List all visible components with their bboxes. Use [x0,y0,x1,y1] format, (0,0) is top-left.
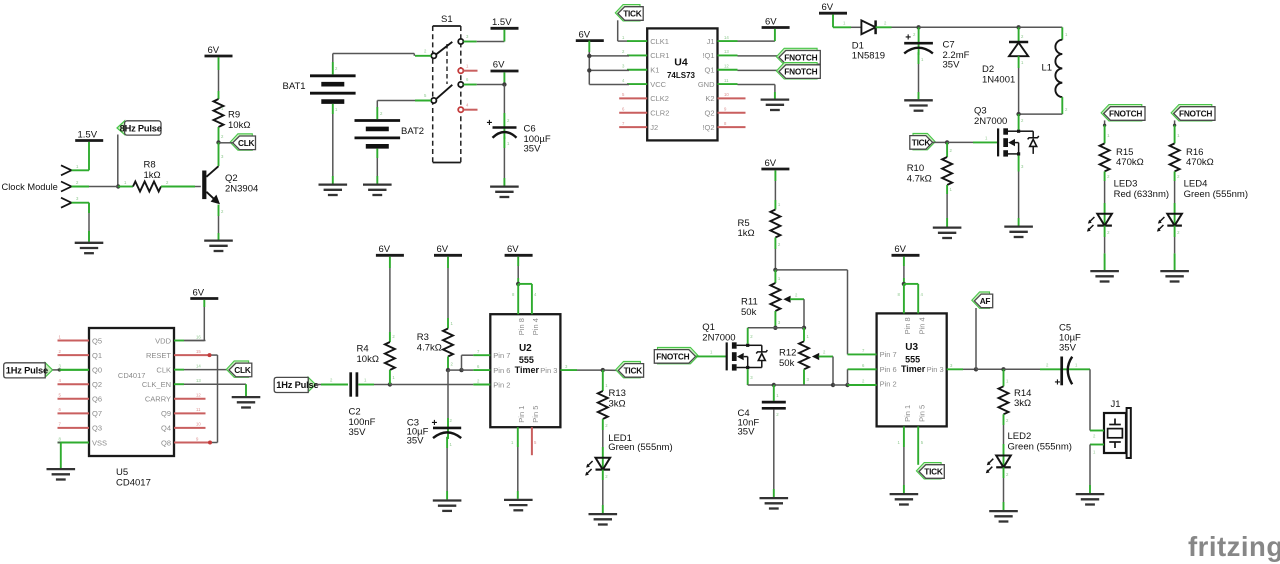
svg-text:J1: J1 [1111,399,1121,410]
svg-text:CARRY: CARRY [145,395,171,404]
svg-text:Pin 6: Pin 6 [880,365,897,374]
svg-text:74LS73: 74LS73 [667,71,696,80]
svg-text:R8: R8 [144,159,156,170]
svg-text:Green (555nm): Green (555nm) [1008,441,1072,452]
svg-text:6V: 6V [437,244,449,255]
wire 6V to U2 Pin8/Pin4 [517,257,519,266]
net flag FNOTCH (R15) [1101,105,1142,121]
svg-text:CLK2: CLK2 [650,94,669,103]
svg-text:VDD: VDD [155,336,171,345]
wire LED3 to ground [1104,226,1106,237]
svg-text:R14: R14 [1014,388,1031,399]
svg-text:FNOTCH: FNOTCH [656,352,689,362]
svg-text:Q3: Q3 [974,106,987,117]
svg-text:12: 12 [724,64,729,69]
ground (U2 Pin1) [504,499,533,501]
svg-text:4.7kΩ: 4.7kΩ [907,173,932,184]
wire 1Hz Pulse to C2 [316,384,321,386]
IC U2 555 timer [490,314,560,427]
S1 pole1 lever [436,42,453,55]
S1 pin 2 (common 1) [431,53,436,58]
svg-text:CLK: CLK [238,138,255,148]
svg-text:Pin 5: Pin 5 [531,406,540,423]
svg-text:Q1: Q1 [92,351,102,360]
net flag FNOTCH (U4 Q1) [738,69,780,71]
power rail 6V (U2) [505,254,533,257]
wire C3 to ground [446,437,448,448]
U4 pin 6 CLR2 [619,112,647,114]
svg-text:fritzing: fritzing [1188,531,1280,562]
svg-text:AF: AF [980,296,991,306]
svg-text:TICK: TICK [924,467,943,477]
wire U5 VDD to 6V [184,340,204,342]
node junction TICK/R10/Q3 [945,140,949,144]
svg-text:CD4017: CD4017 [118,371,146,380]
svg-text:TICK: TICK [623,9,642,19]
IC U5 CD4017 [89,328,174,456]
svg-text:2N3904: 2N3904 [225,184,258,195]
svg-text:CLK1: CLK1 [650,37,669,46]
wire C4 to ground [773,410,775,489]
svg-text:6V: 6V [193,287,205,298]
power rail 6V (U4 J1) [762,26,790,29]
svg-text:C2: C2 [349,407,361,418]
U3 Pin6 stub [848,368,877,370]
U5 pin 7 Q3 [58,427,90,429]
node junction U4 CLR1 [587,54,591,58]
U5 pin 16 VDD [174,340,184,342]
S1 pole2 lever [436,85,453,100]
wire TICK to R10 node [933,141,948,143]
svg-text:6V: 6V [579,29,591,40]
wire U4 J1 to 6V [738,40,775,42]
svg-text:Pin 4: Pin 4 [531,318,540,335]
svg-text:CLK: CLK [234,365,251,375]
ground (U5 CLK_EN) [232,396,261,398]
U2 Pin3 stub [560,369,577,371]
svg-text:35V: 35V [349,427,367,438]
svg-text:Red (633nm): Red (633nm) [1114,189,1169,200]
net flag FNOTCH (R16) [1171,105,1212,121]
svg-text:Pin 2: Pin 2 [880,380,897,389]
ground (C6) [490,185,519,187]
ground (U3 Pin1) [890,493,919,495]
ground (C7) [904,99,933,101]
svg-text:Pin 8: Pin 8 [903,317,912,334]
wire 6V to U3 Pin8/Pin4 [903,257,905,266]
node junction U4 K1 [587,68,591,72]
wire S1 pin3 to 1.5V [477,41,505,43]
svg-text:LED2: LED2 [1008,431,1032,442]
R11 wiper arrow [783,296,790,303]
wire node to U3 Pin7 [775,269,847,271]
svg-text:1Hz Pulse: 1Hz Pulse [276,380,318,390]
svg-text:16: 16 [196,334,201,339]
S1 pin 6 [458,82,463,87]
svg-text:FNOTCH: FNOTCH [784,67,817,77]
svg-text:2N7000: 2N7000 [702,333,735,344]
svg-text:S1: S1 [441,14,453,25]
wire U3 Pin1 to ground [903,426,905,447]
U4 pin 1 CLK1 [627,40,647,42]
svg-text:TICK: TICK [624,366,643,376]
wire clock pin1 to 1.5V [88,142,90,170]
power rail 6V (U5 VDD) [190,297,218,300]
ground (C3) [433,499,462,501]
S1 pin 1 (unconnected) [458,68,463,73]
wire R3 node to Pin7/Pin6 node [448,369,462,371]
svg-text:+: + [905,32,911,43]
ground (J1) [1076,493,1105,495]
svg-text:R11: R11 [741,297,758,308]
wire TICK to U4 pin1 [617,20,619,41]
node junction C4 [772,383,776,387]
power rail 6V (U4 left) [576,39,604,42]
wire BAT2 plus to S1 pin5 [376,107,378,119]
U5 pin 1 Q5 [58,340,90,342]
svg-text:VCC: VCC [650,80,666,89]
power rail 6V (U3) [892,254,920,257]
svg-text:470kΩ: 470kΩ [1186,157,1214,168]
ground (R10) [933,226,962,228]
svg-text:+: + [1055,378,1061,389]
svg-text:35V: 35V [738,427,756,438]
svg-text:6V: 6V [765,158,777,169]
node junction Q3 drain [1016,112,1020,116]
IC U3 555 timer [877,313,947,426]
svg-text:1.5V: 1.5V [78,129,98,140]
svg-text:K1: K1 [650,66,659,75]
svg-text:FNOTCH: FNOTCH [784,52,817,62]
svg-text:1kΩ: 1kΩ [144,170,161,181]
ground (U5 VSS) [47,468,76,470]
U2 Pin7 stub [473,354,490,356]
node junction at R8 left [116,184,120,188]
node junction R12 wiper bottom [831,383,835,387]
wire U5 RESET to Q8 [210,354,218,356]
svg-text:Q1: Q1 [704,66,714,75]
svg-text:Q1: Q1 [702,322,715,333]
node junction R5/R11 [773,268,777,272]
wire L1/D2 to Q3 drain [1019,113,1063,115]
U4 pin 10 K2 [718,97,746,99]
power rail 6V (D1) [819,12,847,15]
wire C7 to ground [918,52,920,64]
U2 Pin6 stub [473,369,490,371]
net flag 1Hz Pulse (C2) [308,377,315,391]
svg-text:FNOTCH: FNOTCH [1109,109,1142,119]
node junction Pin3/R13 [601,368,605,372]
svg-text:Q0: Q0 [92,365,102,374]
U5 pin 13 CLK_EN [174,383,184,385]
svg-text:6V: 6V [822,2,834,13]
svg-text:Clock Module: Clock Module [2,182,58,192]
svg-text:Q7: Q7 [92,409,102,418]
svg-text:50k: 50k [741,307,757,318]
wire node to C6 [503,85,505,114]
svg-text:Green (555nm): Green (555nm) [1184,189,1248,200]
S1 pin 5 (common 2) [431,98,436,103]
svg-text:35V: 35V [407,436,425,447]
svg-text:TICK: TICK [912,138,931,148]
svg-text:3kΩ: 3kΩ [609,399,626,410]
svg-text:Q6: Q6 [92,395,102,404]
wire 6V to R9 [218,57,220,70]
svg-text:Pin 1: Pin 1 [517,406,526,423]
svg-text:Q9: Q9 [161,409,171,418]
wire U2 Pin3 to R13 node [577,369,603,371]
U5 pin 4 Q2 [58,383,90,385]
svg-text:U3: U3 [905,342,918,353]
wire BAT1 plus to S1 pin2 [332,62,334,74]
wire Q1 source to C4 node [747,369,749,385]
svg-text:R13: R13 [609,388,626,399]
svg-text:Pin 7: Pin 7 [880,350,897,359]
svg-text:Q4: Q4 [161,424,171,433]
svg-text:Pin 1: Pin 1 [903,405,912,422]
svg-text:6V: 6V [765,16,777,27]
ground (LED1) [589,513,618,515]
node junction C2/R4/Pin2 [388,382,392,386]
svg-text:6V: 6V [379,244,391,255]
U5 pin 8 VSS [58,441,90,443]
svg-text:15: 15 [196,349,201,354]
U4 pin 14 J1 [718,40,738,42]
U5 pin 3 Q0 [58,369,90,371]
net flag 1Hz Pulse (U5 Q0) [45,363,52,377]
svg-text:Pin 3: Pin 3 [927,365,944,374]
ground (Q2 emitter) [204,239,233,241]
power rail 6V (R4) [376,254,404,257]
ground (BAT1) [319,183,348,185]
ground (Q3) [1004,225,1033,227]
svg-text:1kΩ: 1kΩ [738,228,755,239]
net flag AF [975,308,977,369]
wire Q3 source to ground [1018,156,1020,172]
node junction Pin7/Pin6 [459,368,463,372]
wire 8Hz Pulse to R8 node [117,135,119,187]
svg-text:Q2: Q2 [704,109,714,118]
svg-text:1Hz Pulse: 1Hz Pulse [6,365,48,375]
svg-text:R4: R4 [357,344,369,355]
node junction C7 [916,25,920,29]
svg-text:Q2: Q2 [92,380,102,389]
U5 pin 10 Q4 [174,427,206,429]
wire D2 node to L1 [1019,26,1063,28]
svg-text:U2: U2 [519,343,532,354]
svg-text:Timer: Timer [515,365,540,375]
svg-text:14: 14 [724,35,729,40]
U4 pin 12 Q1 [718,69,738,71]
wire LED1 to ground [602,470,604,480]
svg-text:R9: R9 [228,110,240,121]
net flag TICK (Q3 gate) [913,133,935,149]
svg-text:Timer: Timer [901,364,926,374]
svg-text:35V: 35V [524,144,542,155]
wire node to U2 Pin2 [390,384,473,386]
node junction U3 Pin8 [902,282,906,286]
wire LED2 to ground [1003,467,1005,478]
U4 pin 13 !Q1 [718,54,738,56]
U2 Pin5 stub (unconnected) [531,427,533,455]
power rail 6V (R3) [434,254,462,257]
svg-text:1N5819: 1N5819 [852,51,885,62]
wire clock pin2 to node [89,186,118,188]
svg-text:R12: R12 [779,348,796,359]
svg-text:1N4001: 1N4001 [982,74,1015,85]
wire U4 GND to ground [738,84,775,86]
svg-text:50k: 50k [779,358,795,369]
wire 6V to U4 CLR1/K1/VCC [588,41,590,52]
net flag CLK (U5) [184,369,229,371]
J1 pin 2 stub [1090,430,1104,432]
svg-text:CLK: CLK [156,365,171,374]
svg-text:R5: R5 [738,218,750,229]
svg-text:L1: L1 [1042,63,1053,74]
power rail 6V (Q2 collector) [205,55,233,58]
wire node to U2 Pin6 [462,369,474,371]
svg-text:R10: R10 [907,163,924,174]
wire Q2 emitter to ground [218,205,220,216]
svg-text:4.7kΩ: 4.7kΩ [417,343,442,354]
wire U3 Pin3 to AF node [963,368,976,370]
net flag TICK (U2 Pin3) [603,369,619,371]
svg-text:Green (555nm): Green (555nm) [608,442,672,453]
wire 6V to D1 [832,15,834,28]
node junction R3/Pin6 [446,368,450,372]
svg-text:R3: R3 [417,332,429,343]
svg-text:BAT1: BAT1 [283,81,306,92]
svg-text:Pin 8: Pin 8 [517,318,526,335]
svg-text:Q8: Q8 [161,438,171,447]
U5 pin 11 Q9 [174,412,206,414]
svg-text:13: 13 [724,49,729,54]
svg-text:6V: 6V [208,45,220,56]
U4 pin 4 VCC [627,83,647,85]
svg-text:VSS: VSS [92,438,107,447]
node junction R11 bottom [773,326,777,330]
svg-text:555: 555 [519,355,534,365]
wire U5 CLK_EN to ground [184,383,246,385]
S1 pin 4 (unconnected) [458,107,463,112]
wire BAT2 minus to ground [376,149,378,158]
net flag FNOTCH (Q1 gate) [658,347,699,363]
S1 pin 3 [458,39,463,44]
net flag CLK (Q2) [230,134,252,150]
U4 pin 5 CLK2 [619,97,647,99]
wire to Pin6/Pin2 node [833,384,848,386]
power rail 6V (S1 pin6) [491,70,519,73]
ground (LED2) [989,510,1018,512]
svg-text:13: 13 [196,378,201,383]
svg-text:CLK_EN: CLK_EN [142,380,171,389]
svg-text:11: 11 [724,78,729,83]
svg-text:FNOTCH: FNOTCH [1179,109,1212,119]
svg-text:Pin 7: Pin 7 [493,351,510,360]
U5 pin 2 Q1 [58,354,90,356]
U2 Pin2 stub [473,384,490,386]
node junction 6V/C6 [502,82,506,86]
svg-text:1.5V: 1.5V [492,17,512,28]
wire FNOTCH to R15 [1104,120,1106,125]
svg-text:K2: K2 [705,94,714,103]
wire FNOTCH to R16 [1174,120,1176,125]
svg-text:6V: 6V [894,244,906,255]
wire LED4 to ground [1174,226,1176,237]
svg-text:CLR2: CLR2 [650,109,669,118]
net flag FNOTCH (U4 !Q1) [738,55,780,57]
svg-text:Pin 5: Pin 5 [917,405,926,422]
svg-text:J1: J1 [707,37,715,46]
wire S1 pin6 to 6V node [477,84,505,86]
svg-text:35V: 35V [943,60,961,71]
svg-text:!Q2: !Q2 [702,123,714,132]
J1 pin 1 to ground [1090,444,1104,446]
wire FNOTCH to Q1 gate [696,355,727,357]
node junction R9/Q2/CLK [216,140,220,144]
wire U5 VSS to ground [58,441,61,443]
R12 wiper arrow [812,353,819,360]
svg-text:3kΩ: 3kΩ [1014,398,1031,409]
ground (clock module) [75,242,104,244]
U3 Pin5 to TICK [917,426,919,464]
ground (C4) [760,497,789,499]
wire 1Hz Pulse to U5 Q0 [53,369,60,371]
U4 pin 2 CLR1 [627,54,647,56]
svg-text:10: 10 [196,422,201,427]
svg-text:+: + [487,118,493,129]
svg-text:35V: 35V [1059,342,1077,353]
svg-text:10: 10 [724,92,729,97]
svg-text:Pin 3: Pin 3 [540,366,557,375]
wire Q1 drain lead [747,328,749,344]
U5 pin 15 RESET [174,354,210,356]
node junction U3 Pin6/Pin2 [845,383,849,387]
node junction U2 Pin8 [516,282,520,286]
svg-text:GND: GND [698,80,715,89]
wire C4 node to R12 bottom node [774,384,833,386]
U5 pin 12 CARRY [174,398,206,400]
IC U4 74LS73 [647,28,717,140]
U5 pin 9 Q8 [174,441,210,443]
svg-text:CLR1: CLR1 [650,51,669,60]
U3 Pin2 stub [848,384,877,386]
U4 pin 9 Q2 [718,112,746,114]
node junction R12 top [802,326,806,330]
net flag 8Hz Pulse [117,121,125,135]
wire BAT1 minus to ground [332,104,334,114]
U4 pin 3 K1 [627,69,647,71]
svg-text:J2: J2 [650,123,658,132]
node junction AF [974,367,978,371]
net flag TICK (U3 Pin5) [916,463,941,479]
U3 Pin7 stub [848,353,877,355]
svg-text:Pin 4: Pin 4 [917,317,926,334]
svg-text:470kΩ: 470kΩ [1116,157,1144,168]
wire C7 node to D2 node [919,26,1019,28]
svg-text:6V: 6V [507,244,519,255]
wire node to Q3 gate [947,141,973,143]
svg-text:6V: 6V [493,60,505,71]
ground (BAT2) [363,183,392,185]
wire U2 Pin1 to ground [517,427,519,447]
svg-text:555: 555 [905,354,920,364]
U5 pin 6 Q7 [58,412,90,414]
power rail 1.5V (S1 pin3) [491,27,519,30]
svg-text:!Q1: !Q1 [702,51,714,60]
U4 pin 11 GND [718,83,738,85]
svg-text:U5: U5 [116,467,128,478]
